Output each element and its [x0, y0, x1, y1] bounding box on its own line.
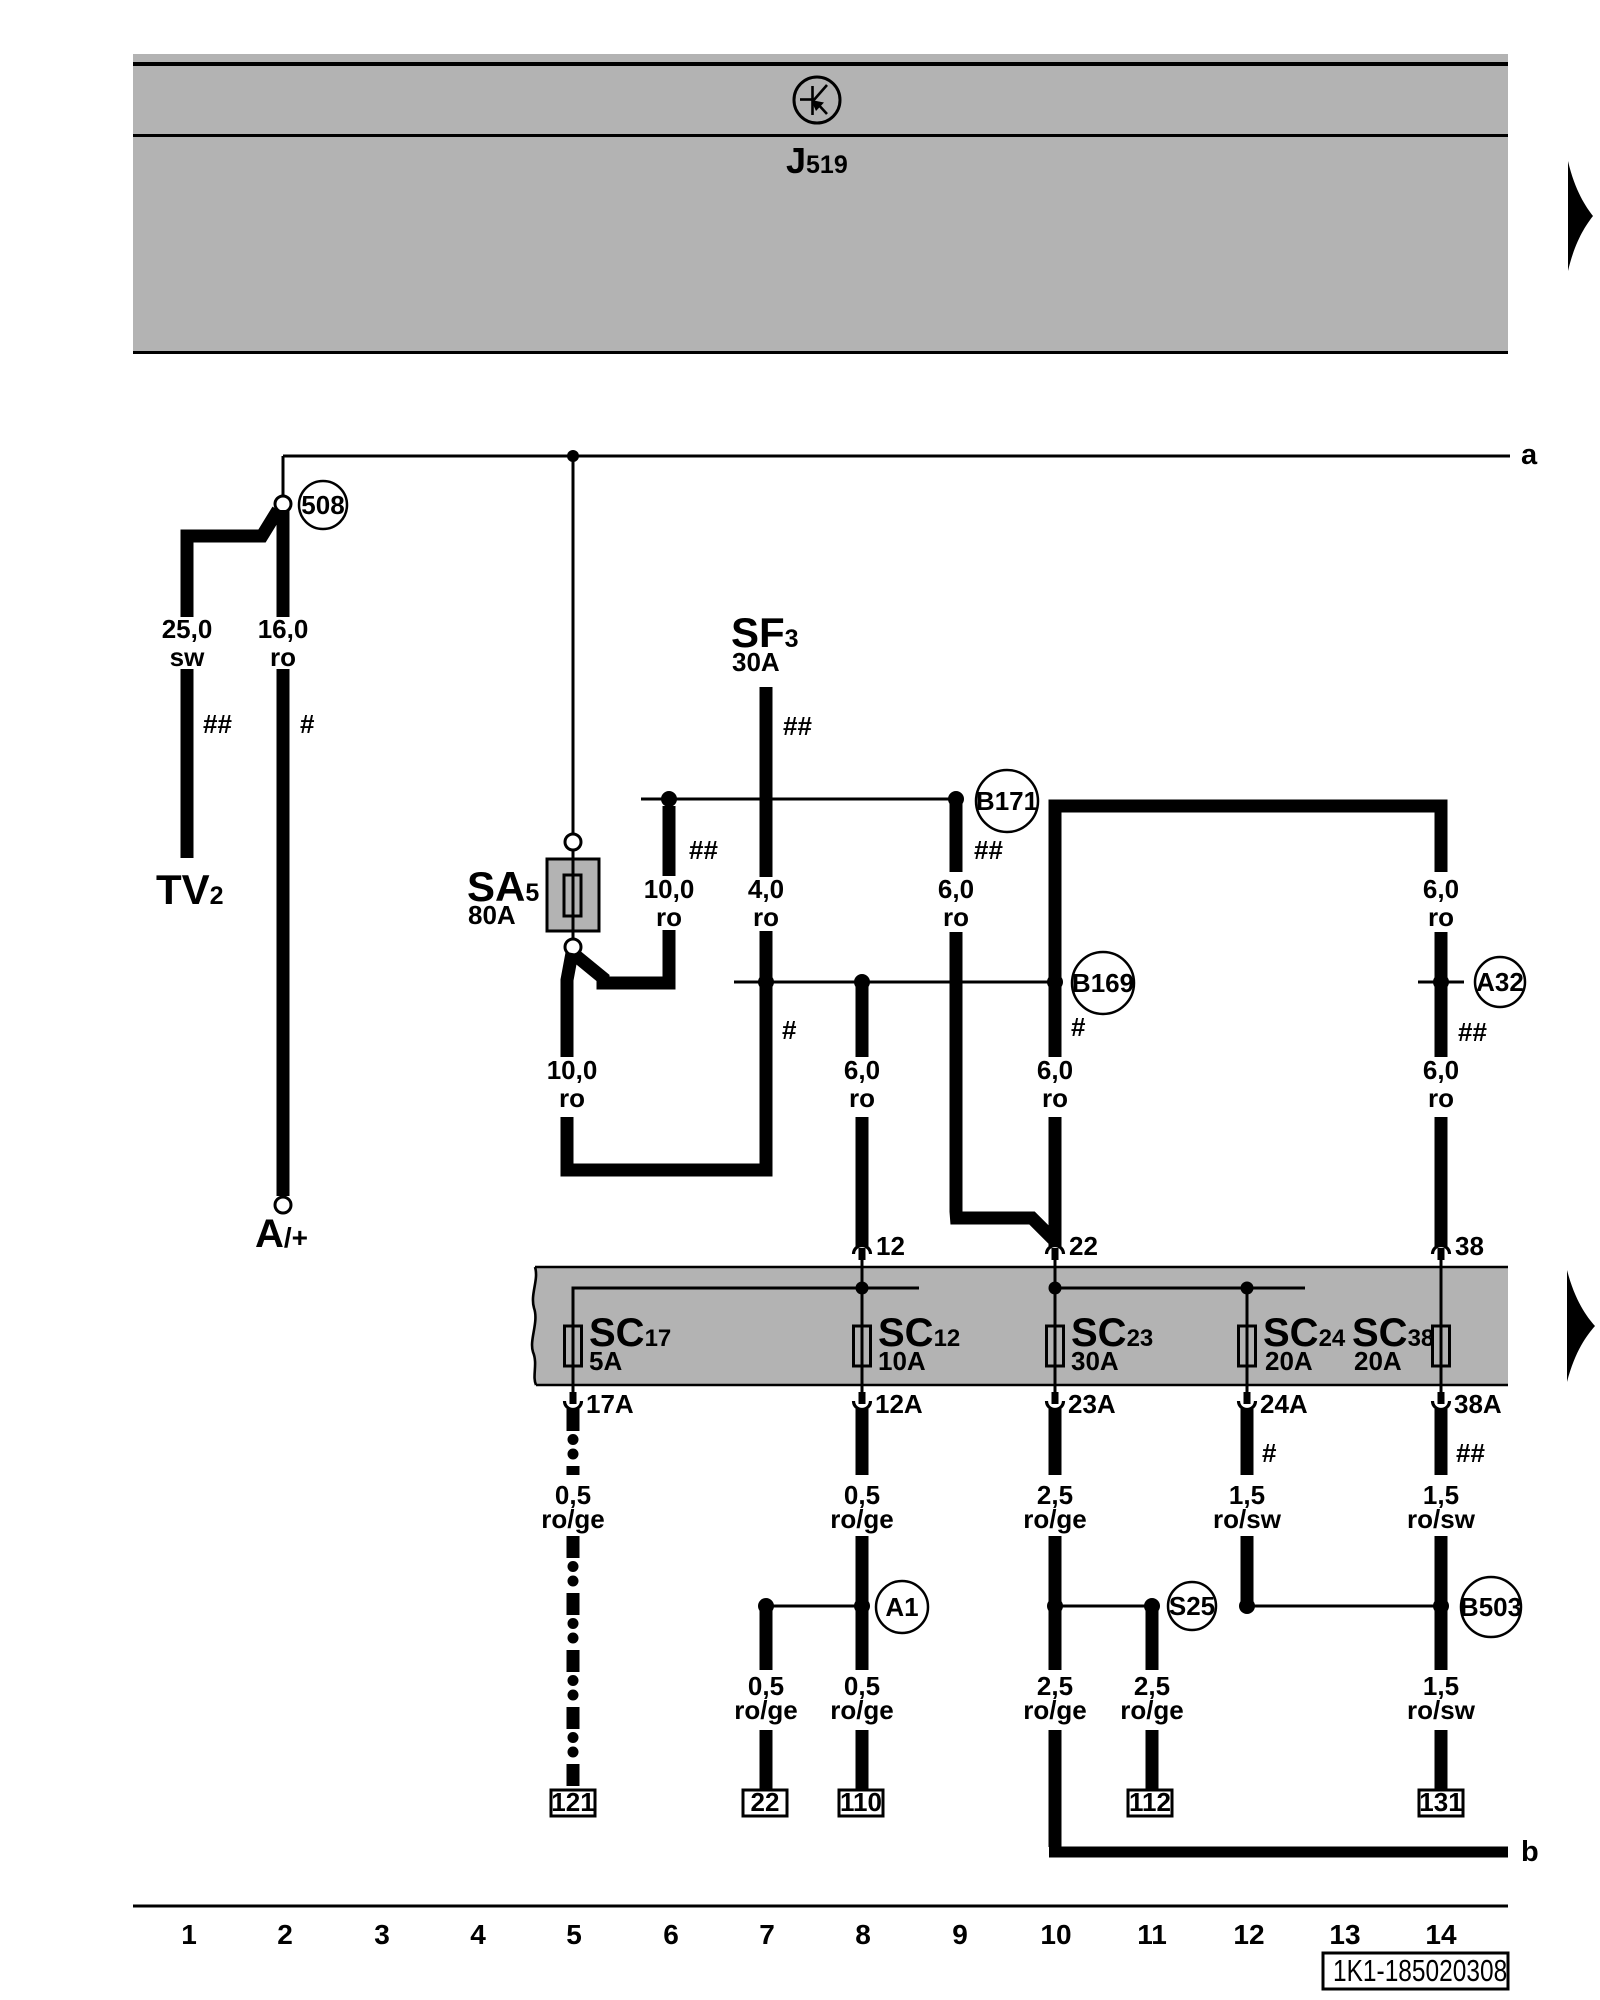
terminal 22 — [743, 1790, 787, 1816]
pin 12 at strip top — [854, 1246, 871, 1255]
diagram code box 1K1-185020308 — [1323, 1953, 1508, 1989]
svg-text:13: 13 — [1329, 1919, 1360, 1950]
svg-text:25,0: 25,0 — [162, 614, 213, 644]
track number axis — [133, 1905, 1508, 1908]
fuse SA5 body — [547, 859, 599, 931]
svg-text:6,0: 6,0 — [1037, 1055, 1073, 1085]
wire col10 (6,0 ro) from B169 junction to pin 22 — [1049, 982, 1062, 1057]
wire col5 dashed (0,5 ro/ge) to terminal 121 — [567, 1409, 580, 1475]
svg-text:110: 110 — [840, 1787, 882, 1817]
fuse panel strip with torn left edge — [532, 1267, 1508, 1385]
wire: node a horizontal line — [283, 455, 1510, 458]
svg-text:6,0: 6,0 — [938, 874, 974, 904]
wire col2 to A/+ (16,0 ro) — [277, 510, 290, 617]
svg-text:38A: 38A — [1454, 1389, 1502, 1419]
svg-text:ro: ro — [559, 1083, 585, 1113]
svg-text:38: 38 — [1455, 1231, 1484, 1261]
svg-text:##: ## — [203, 709, 232, 739]
svg-text:23A: 23A — [1068, 1389, 1116, 1419]
svg-text:4,0: 4,0 — [748, 874, 784, 904]
svg-text:12: 12 — [876, 1231, 905, 1261]
svg-text:12A: 12A — [875, 1389, 923, 1419]
svg-text:10A: 10A — [878, 1346, 926, 1376]
svg-text:1: 1 — [181, 1919, 197, 1950]
fuse SC17 5A — [572, 1288, 575, 1392]
svg-text:6,0: 6,0 — [1423, 874, 1459, 904]
control unit J519 box — [133, 54, 1508, 354]
svg-text:1K1-185020308: 1K1-185020308 — [1333, 1953, 1507, 1987]
svg-text:6,0: 6,0 — [844, 1055, 880, 1085]
svg-text:5: 5 — [566, 1919, 582, 1950]
svg-text:112: 112 — [1129, 1787, 1171, 1817]
svg-text:##: ## — [1458, 1017, 1487, 1047]
wire: SA5 output elbow right up to col6 junction — [575, 930, 669, 983]
svg-text:ro/ge: ro/ge — [1023, 1504, 1087, 1534]
svg-text:ro: ro — [1042, 1083, 1068, 1113]
svg-text:9: 9 — [952, 1919, 968, 1950]
node label 508 — [299, 481, 347, 529]
svg-text:ro: ro — [1428, 1083, 1454, 1113]
svg-text:ro/ge: ro/ge — [830, 1695, 894, 1725]
strip internal bus line 1 — [573, 1288, 919, 1327]
node label A32 — [1475, 957, 1525, 1007]
wire col14 (1,5 ro/sw) from pin 38A through B503 to terminal 131 — [1435, 1409, 1448, 1475]
svg-text:A1: A1 — [885, 1592, 918, 1622]
node label B503 — [1461, 1577, 1521, 1637]
junction dot col9/line799 — [948, 791, 964, 807]
junction S25 line — [1055, 1605, 1152, 1608]
svg-text:S25: S25 — [1169, 1591, 1215, 1621]
svg-text:b: b — [1521, 1836, 1539, 1868]
svg-text:10: 10 — [1040, 1919, 1071, 1950]
open circle below SA5 — [565, 939, 581, 955]
pin 12A at strip bottom — [859, 1392, 866, 1404]
svg-text:B171: B171 — [976, 786, 1038, 816]
wire: SA5 output down-left leg (10,0 ro) and U to col7 — [567, 953, 572, 1057]
svg-text:#: # — [782, 1015, 797, 1045]
bus connection symbol (circle with arrow) in J519 — [794, 77, 840, 123]
connection circle open at 508 — [275, 496, 291, 512]
svg-text:7: 7 — [759, 1919, 775, 1950]
wire: thin drop col5 from node a to SA5 — [572, 456, 575, 835]
svg-text:20A: 20A — [1354, 1346, 1402, 1376]
open circle at A/+ — [275, 1197, 291, 1213]
fuse SC12 10A — [861, 1288, 864, 1392]
current-track continuation arrow (strip right) — [1567, 1270, 1595, 1382]
svg-text:ro/ge: ro/ge — [1120, 1695, 1184, 1725]
svg-text:ro: ro — [849, 1083, 875, 1113]
pin 22 at strip top — [1047, 1246, 1064, 1255]
svg-text:14: 14 — [1425, 1919, 1457, 1950]
svg-text:10,0: 10,0 — [547, 1055, 598, 1085]
svg-text:sw: sw — [170, 642, 205, 672]
pin 38 at strip top — [1433, 1246, 1450, 1255]
wire thick from col10 corner right to col14 corner — [1055, 806, 1441, 982]
fuse SC23 30A — [1054, 1288, 1057, 1392]
node label S25 — [1168, 1582, 1216, 1630]
svg-text:ro: ro — [656, 902, 682, 932]
svg-text:121: 121 — [551, 1787, 594, 1817]
svg-text:24A: 24A — [1260, 1389, 1308, 1419]
wire TV2 branch (25,0 sw) — [187, 510, 278, 617]
svg-text:A32: A32 — [1476, 967, 1524, 997]
svg-text:16,0: 16,0 — [258, 614, 309, 644]
svg-text:##: ## — [689, 835, 718, 865]
terminal 112 — [1128, 1790, 1172, 1816]
svg-text:5A: 5A — [589, 1346, 622, 1376]
svg-text:ro/ge: ro/ge — [830, 1504, 894, 1534]
junction B503 line — [1247, 1605, 1441, 1608]
svg-text:#: # — [1262, 1438, 1277, 1468]
svg-text:8: 8 — [855, 1919, 871, 1950]
svg-text:ro: ro — [270, 642, 296, 672]
svg-text:22: 22 — [751, 1787, 780, 1817]
svg-text:22: 22 — [1069, 1231, 1098, 1261]
svg-text:131: 131 — [1419, 1787, 1462, 1817]
wire pin38 down to fuse SC38 — [1440, 1288, 1443, 1326]
svg-text:#: # — [1071, 1012, 1086, 1042]
svg-text:ro/sw: ro/sw — [1213, 1504, 1282, 1534]
node label B171 — [976, 770, 1038, 832]
svg-text:ro: ro — [1428, 902, 1454, 932]
wire: internal line y982 — [734, 981, 1055, 984]
svg-text:508: 508 — [301, 490, 344, 520]
wire col12 (1,5 ro/sw) from pin 24A to B503 line — [1241, 1409, 1254, 1475]
svg-text:20A: 20A — [1265, 1346, 1313, 1376]
svg-text:##: ## — [974, 835, 1003, 865]
pin 17A at strip bottom — [570, 1392, 577, 1404]
fuse SC24 20A — [1246, 1288, 1249, 1392]
terminal 121 — [551, 1790, 595, 1816]
svg-text:ro/ge: ro/ge — [734, 1695, 798, 1725]
terminal 131 — [1419, 1790, 1463, 1816]
wire col8 (0,5 ro/ge) through A1 to terminal 110 — [856, 1409, 869, 1475]
svg-text:##: ## — [1456, 1438, 1485, 1468]
fuse SC38 20A — [1440, 1326, 1443, 1392]
strip internal bus line 2 — [1055, 1287, 1305, 1290]
svg-text:10,0: 10,0 — [644, 874, 695, 904]
svg-text:11: 11 — [1137, 1919, 1167, 1950]
node label A1 — [876, 1581, 928, 1633]
junction dot on node a at col5 — [567, 450, 579, 462]
svg-text:##: ## — [783, 711, 812, 741]
wire: drop from node a to terminal 30 connection 508 — [282, 456, 285, 497]
svg-text:ro/ge: ro/ge — [1023, 1695, 1087, 1725]
svg-text:ro/sw: ro/sw — [1407, 1695, 1476, 1725]
A32 stub line and junction — [1418, 981, 1464, 984]
svg-text:12: 12 — [1233, 1919, 1264, 1950]
svg-text:30A: 30A — [732, 647, 780, 677]
svg-text:6: 6 — [663, 1919, 679, 1950]
svg-text:ro/ge: ro/ge — [541, 1504, 605, 1534]
svg-text:3: 3 — [374, 1919, 390, 1950]
current-track continuation arrow (top right) — [1568, 161, 1593, 271]
svg-text:B503: B503 — [1460, 1592, 1522, 1622]
svg-text:B169: B169 — [1072, 968, 1134, 998]
svg-text:ro: ro — [943, 902, 969, 932]
pin 38A at strip bottom — [1438, 1392, 1445, 1404]
wire SF3 (4,0 ro) — [760, 687, 773, 877]
wire col8 (6,0 ro) from line2 to pin 12 — [856, 982, 869, 1057]
wire col10 (2,5 ro/ge) through S25 down to node b — [1049, 1409, 1062, 1475]
svg-text:80A: 80A — [468, 900, 516, 930]
pin 24A at strip bottom — [1244, 1392, 1251, 1404]
wire col7 branch (0,5 ro/ge) to terminal 22 — [760, 1606, 773, 1670]
wire col9 from B171 junction down to pin 22 elbow — [950, 799, 963, 872]
terminal 110 — [839, 1790, 883, 1816]
wire: internal line y799 — [641, 798, 956, 801]
pin 23A at strip bottom — [1052, 1392, 1059, 1404]
svg-text:#: # — [300, 709, 315, 739]
open circle above SA5 — [565, 834, 581, 850]
svg-text:6,0: 6,0 — [1423, 1055, 1459, 1085]
svg-text:30A: 30A — [1071, 1346, 1119, 1376]
svg-text:a: a — [1521, 439, 1538, 471]
svg-text:17A: 17A — [586, 1389, 634, 1419]
wire col11 branch (2,5 ro/ge) to terminal 112 — [1146, 1606, 1159, 1670]
node label B169 — [1072, 952, 1134, 1014]
junction A1 line — [766, 1605, 862, 1608]
svg-text:4: 4 — [470, 1919, 486, 1950]
svg-text:ro/sw: ro/sw — [1407, 1504, 1476, 1534]
svg-text:ro: ro — [753, 902, 779, 932]
svg-text:2: 2 — [277, 1919, 293, 1950]
junction dot col6/line799 — [661, 791, 677, 807]
